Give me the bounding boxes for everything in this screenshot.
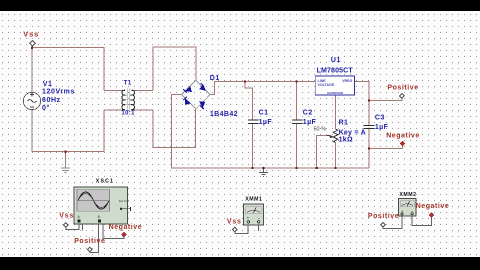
svg-text:C1: C1 xyxy=(259,110,269,117)
svg-text:1µF: 1µF xyxy=(303,119,317,126)
svg-text:XSC1: XSC1 xyxy=(96,179,114,185)
svg-text:Negative: Negative xyxy=(386,132,420,139)
svg-text:common: common xyxy=(327,90,344,95)
svg-text:XMM1: XMM1 xyxy=(245,196,262,202)
svg-text:D1: D1 xyxy=(210,75,220,82)
svg-text:60Hz: 60Hz xyxy=(42,97,61,104)
svg-text:Negative: Negative xyxy=(109,224,143,231)
svg-text:Positive: Positive xyxy=(387,85,418,92)
svg-text:1µF: 1µF xyxy=(375,124,389,131)
svg-text:+: + xyxy=(247,216,250,221)
svg-text:50 %: 50 % xyxy=(314,126,327,132)
svg-text:VREG: VREG xyxy=(342,79,352,83)
svg-text:T1: T1 xyxy=(124,81,132,87)
svg-text:1B4B42: 1B4B42 xyxy=(210,111,238,118)
svg-text:VOLTAGE: VOLTAGE xyxy=(318,83,335,87)
svg-text:Positive: Positive xyxy=(74,238,105,245)
svg-text:0°: 0° xyxy=(42,104,50,112)
svg-text:R1: R1 xyxy=(339,120,349,127)
svg-text:U1: U1 xyxy=(331,57,341,64)
svg-text:XMM2: XMM2 xyxy=(399,192,416,198)
svg-text:LM7805CT: LM7805CT xyxy=(317,68,354,75)
svg-text:Ext Trig: Ext Trig xyxy=(119,199,129,203)
svg-text:Vss: Vss xyxy=(23,29,39,38)
svg-text:V1: V1 xyxy=(43,81,53,88)
svg-text:−: − xyxy=(258,216,261,221)
svg-text:Vss: Vss xyxy=(59,213,74,220)
svg-text:10:1: 10:1 xyxy=(121,111,135,117)
svg-text:C3: C3 xyxy=(375,114,385,121)
svg-text:1kΩ: 1kΩ xyxy=(339,137,353,144)
svg-text:1µF: 1µF xyxy=(259,119,273,126)
svg-text:Negative: Negative xyxy=(416,203,450,210)
svg-text:C2: C2 xyxy=(303,110,313,117)
svg-text:Vss: Vss xyxy=(227,219,242,226)
svg-text:Positive: Positive xyxy=(368,213,399,220)
svg-text:B: B xyxy=(98,215,100,219)
svg-text:120Vrms: 120Vrms xyxy=(42,89,75,96)
